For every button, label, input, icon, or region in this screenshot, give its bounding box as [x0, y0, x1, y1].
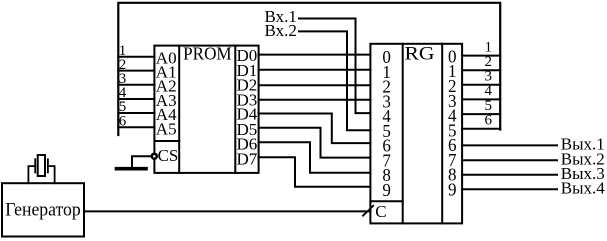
wire D6 to RG in8: [259, 142, 371, 173]
wire pin 6 to A5: [118, 126, 154, 128]
svg-text:Генератор: Генератор: [5, 200, 81, 221]
node labels pins 1-6 left: [119, 43, 127, 130]
svg-text:A5: A5: [156, 119, 177, 138]
wire D2 to RG in2: [259, 84, 371, 86]
svg-text:D7: D7: [237, 149, 258, 168]
svg-text:C: C: [375, 202, 386, 221]
svg-text:RG: RG: [405, 44, 435, 65]
wire generator to C input: [84, 210, 370, 212]
RG U2 box: [370, 44, 462, 224]
svg-text:6: 6: [119, 114, 127, 130]
svg-text:Вх.2: Вх.2: [265, 21, 297, 40]
wire D4 to RG in6: [259, 114, 371, 144]
wire D7 to RG in9: [259, 157, 371, 187]
node labels pins 1-6 right: [485, 39, 493, 128]
wire D3 to RG in3: [259, 99, 371, 101]
svg-text:9: 9: [382, 179, 391, 200]
wire feedback loop top: [118, 3, 500, 135]
wire pin 4 to A3: [118, 98, 154, 100]
wire RG out4 pin5: [462, 113, 500, 115]
wire RG out1 pin2: [462, 69, 500, 71]
wire RG out6 to Vyh.1: [462, 144, 557, 146]
wire RG out5 pin6: [462, 128, 500, 130]
wire CS to ground: [132, 156, 151, 167]
svg-text:2: 2: [485, 54, 493, 70]
dynamic clock input slash at C: [363, 206, 373, 216]
wire RG out3 pin4: [462, 98, 500, 100]
wire pin 3 to A2: [118, 84, 154, 86]
inverter bubble CS pin: [152, 154, 157, 159]
svg-text:3: 3: [485, 69, 493, 85]
wire pin 2 to A1: [118, 70, 154, 72]
crystal resonator: [28, 155, 54, 183]
svg-text:9: 9: [448, 179, 457, 200]
svg-text:PROM: PROM: [183, 44, 232, 64]
wire RG out8 to Vyh.3: [462, 174, 557, 176]
wire RG out7 to Vyh.2: [462, 159, 557, 161]
wire input Vx.1 to RG in4: [299, 19, 370, 114]
wire input Vx.2 to RG in5: [299, 31, 370, 130]
ground: [117, 167, 147, 171]
svg-text:5: 5: [485, 98, 493, 114]
svg-text:CS: CS: [158, 146, 179, 165]
wire D1 to RG in1: [259, 69, 371, 71]
wire RG out2 pin3: [462, 84, 500, 86]
svg-text:1: 1: [485, 39, 493, 55]
svg-text:6: 6: [485, 112, 493, 128]
wire RG out0 pin1: [462, 55, 500, 57]
generator G1 box: [2, 183, 84, 236]
wire pin 5 to A4: [118, 112, 154, 114]
wire D5 to RG in7: [259, 128, 371, 158]
svg-text:Вых.4: Вых.4: [561, 178, 606, 197]
wire RG out9 to Vyh.4: [462, 188, 557, 190]
svg-text:4: 4: [485, 83, 493, 99]
PROM U1 box: [154, 46, 258, 173]
wire D0 to RG in0: [259, 54, 371, 56]
wire pin 1 to A0: [118, 56, 154, 58]
